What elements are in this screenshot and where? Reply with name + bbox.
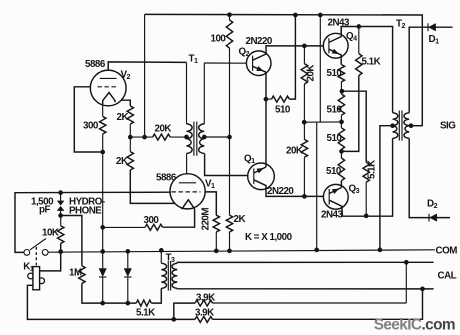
svg-text:2K: 2K bbox=[116, 156, 128, 167]
svg-text:510: 510 bbox=[327, 105, 343, 116]
svg-text:CAL: CAL bbox=[438, 271, 457, 282]
svg-text:2N43: 2N43 bbox=[328, 18, 350, 29]
svg-text:300: 300 bbox=[83, 121, 99, 132]
svg-text:510: 510 bbox=[327, 68, 343, 79]
svg-text:3.9K: 3.9K bbox=[196, 293, 215, 304]
svg-text:5886: 5886 bbox=[85, 59, 106, 70]
svg-text:SIG: SIG bbox=[440, 121, 456, 132]
svg-text:5.1K: 5.1K bbox=[136, 308, 155, 319]
svg-text:3.9K: 3.9K bbox=[195, 308, 214, 319]
svg-text:220M: 220M bbox=[201, 208, 212, 231]
svg-text:5.1K: 5.1K bbox=[362, 57, 381, 68]
svg-text:20K: 20K bbox=[286, 146, 303, 157]
svg-text:510: 510 bbox=[326, 166, 342, 177]
svg-text:2N220: 2N220 bbox=[267, 186, 294, 197]
svg-text:K = X 1,000: K = X 1,000 bbox=[245, 232, 293, 243]
svg-text:10K: 10K bbox=[42, 228, 59, 239]
svg-text:SeekIC.com: SeekIC.com bbox=[374, 316, 455, 333]
svg-text:510: 510 bbox=[327, 133, 343, 144]
svg-text:300: 300 bbox=[144, 215, 160, 226]
svg-text:5886: 5886 bbox=[156, 173, 177, 184]
svg-text:100: 100 bbox=[211, 34, 227, 45]
svg-text:1M: 1M bbox=[69, 268, 82, 279]
svg-text:5.1K: 5.1K bbox=[367, 160, 378, 179]
svg-text:20K: 20K bbox=[306, 65, 317, 82]
svg-text:2K: 2K bbox=[117, 112, 129, 123]
svg-text:2N43: 2N43 bbox=[321, 210, 343, 221]
svg-text:2K: 2K bbox=[234, 214, 246, 225]
svg-text:PHONE: PHONE bbox=[69, 205, 102, 216]
svg-text:2N220: 2N220 bbox=[246, 36, 273, 47]
svg-text:20K: 20K bbox=[155, 124, 172, 135]
svg-text:pF: pF bbox=[39, 205, 50, 216]
svg-text:COM: COM bbox=[436, 246, 458, 257]
svg-text:510: 510 bbox=[275, 105, 291, 116]
